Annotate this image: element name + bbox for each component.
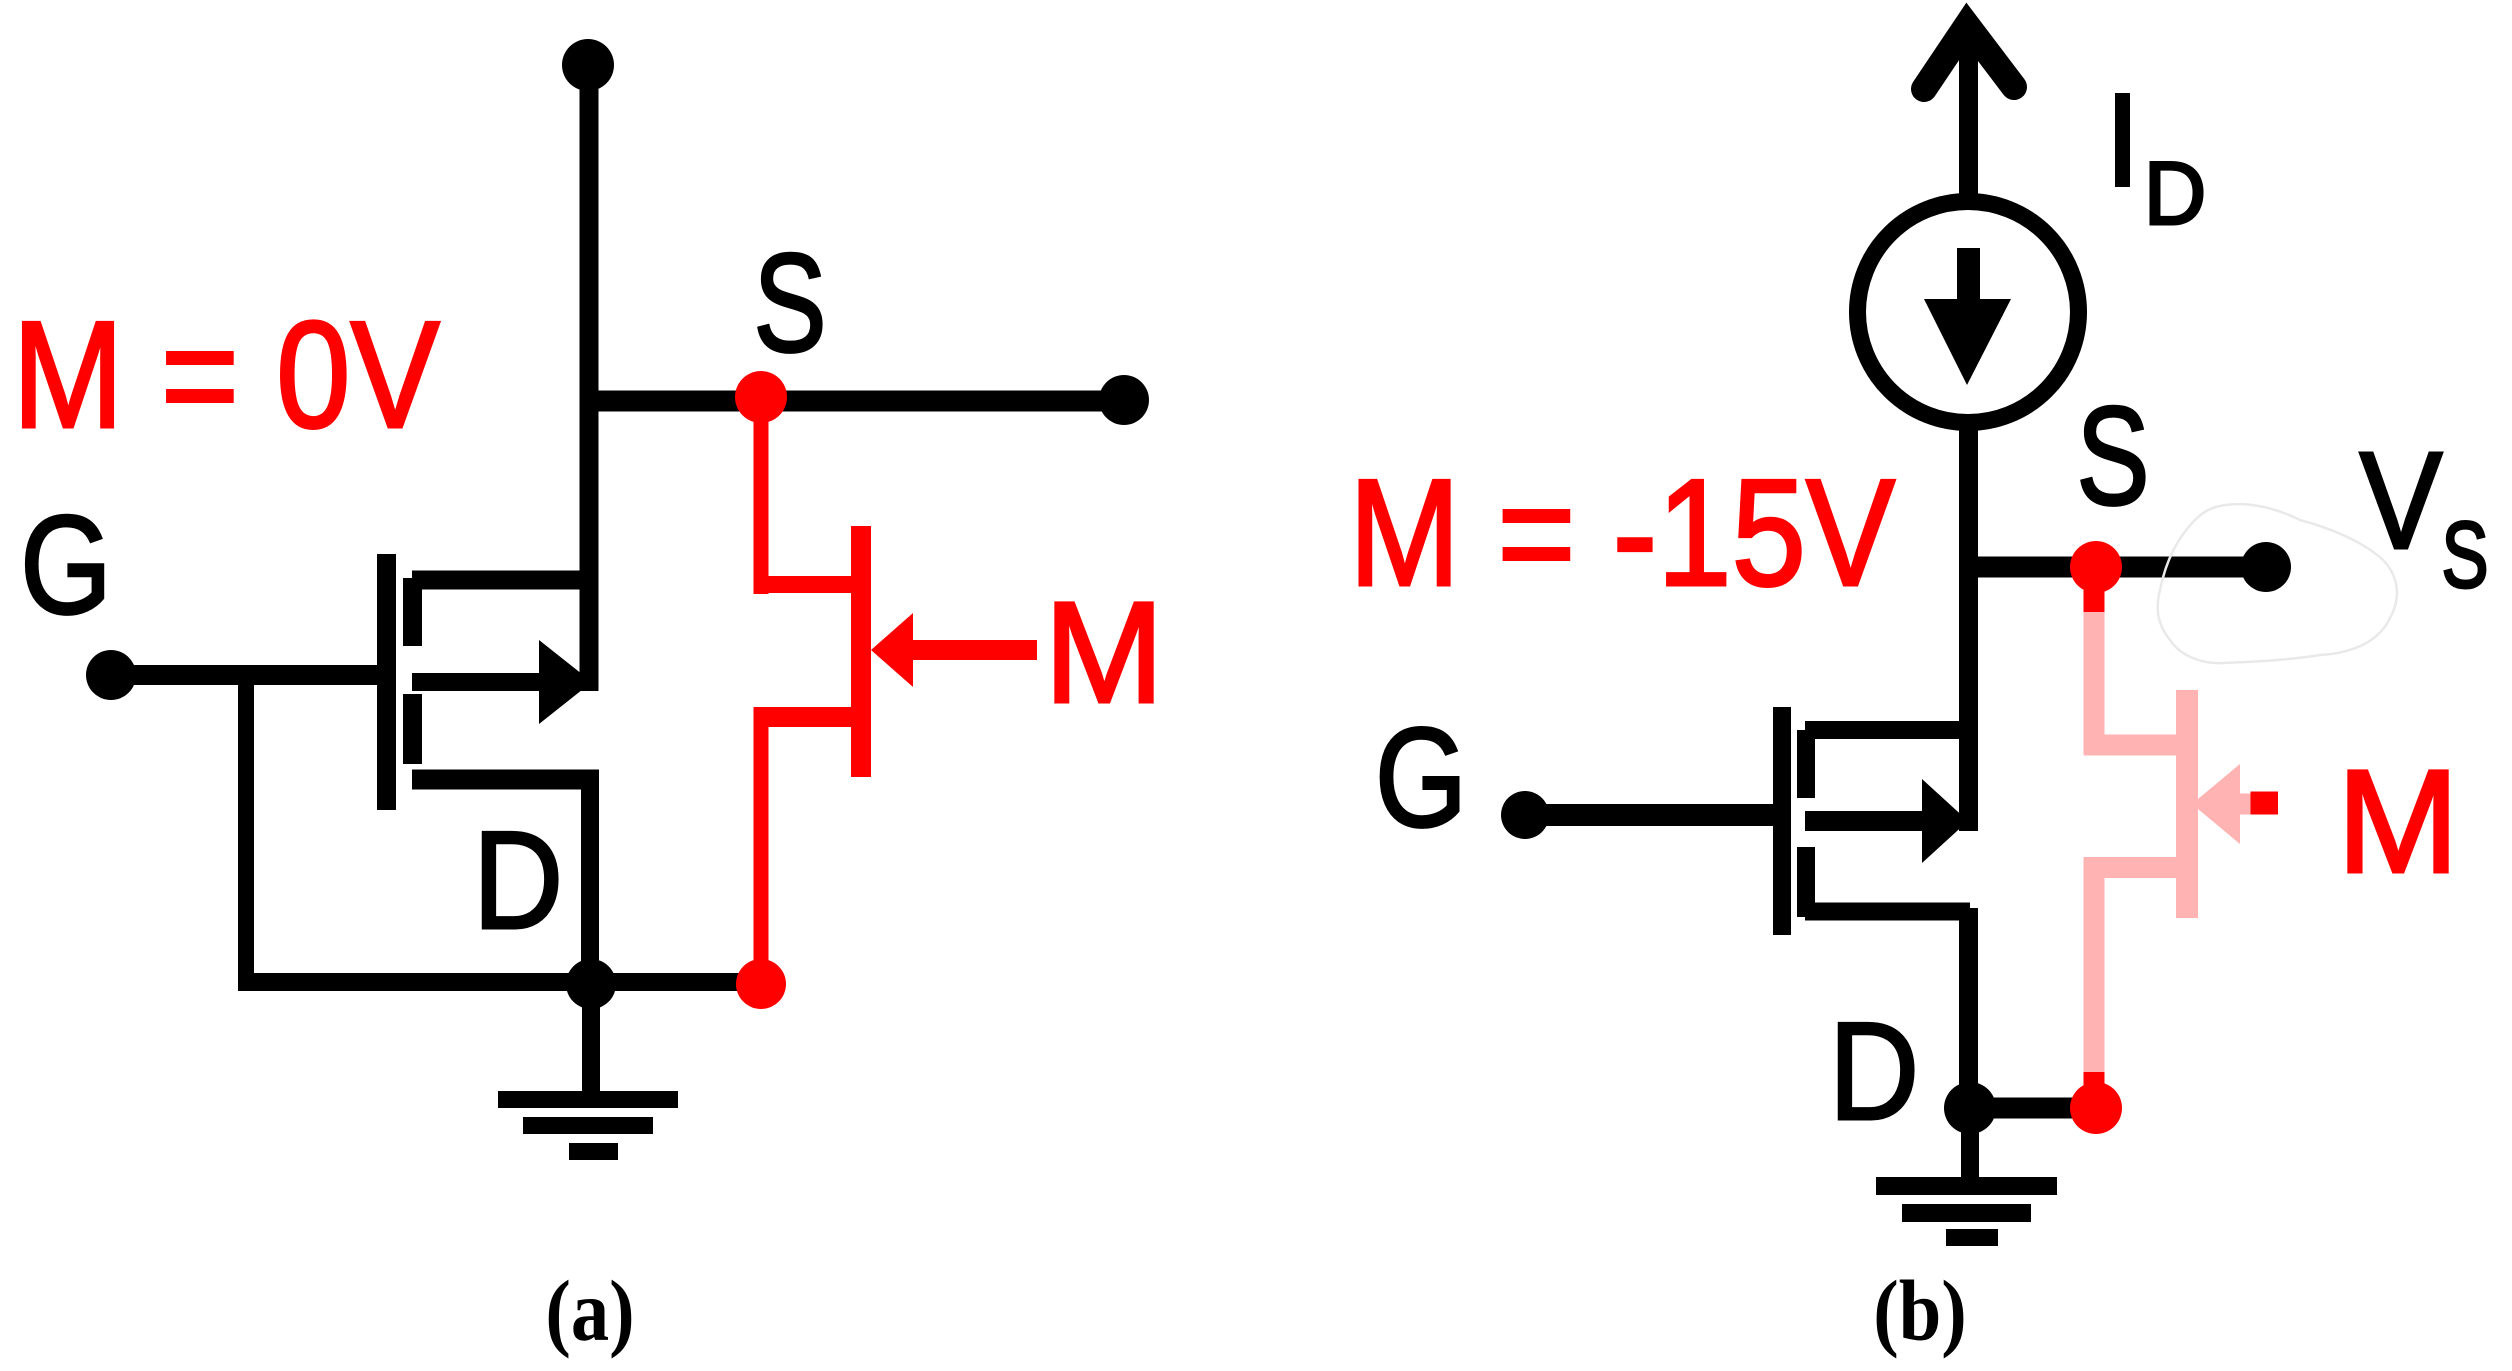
- transistor M2 source lead (b): [1805, 721, 1967, 739]
- wire gate-to-drain drop vertical (a): [238, 665, 254, 990]
- wire gate lead (a): [111, 665, 386, 685]
- node S right terminal dot (a): [1099, 375, 1149, 425]
- wire vertical source line (b): [1959, 420, 1978, 831]
- label S (a): [754, 224, 827, 381]
- wire pink vertical lower (b): [2084, 857, 2105, 1072]
- wire red stub below S dot (b): [2084, 585, 2105, 612]
- label M (red, b): [2337, 740, 2459, 904]
- label G (b): [1375, 698, 1467, 856]
- node red dot bottom (b): [2070, 1082, 2122, 1134]
- node top terminal dot (a): [562, 39, 614, 91]
- transistor M2 channel middle segment (b): [1797, 847, 1815, 917]
- transistor M2 bulk arrow shaft (b): [1805, 811, 1925, 831]
- svg-text:D: D: [1829, 994, 1919, 1150]
- wire bottom horizontal to D (a): [238, 973, 761, 991]
- faint sketch blob near VS (b): [2158, 504, 2397, 663]
- transistor M1 source lead (a): [412, 571, 589, 590]
- current source ID inner arrow head (b): [1924, 299, 2011, 385]
- transistor M1 gate bar (a): [377, 554, 396, 810]
- wire red vertical lower (a): [754, 707, 769, 984]
- svg-text:D: D: [473, 803, 563, 959]
- label (b): [1873, 1262, 1967, 1359]
- transistor M2 bulk arrow head (b): [1922, 779, 1968, 863]
- svg-text:S: S: [2077, 377, 2150, 534]
- wire drain vertical (a): [581, 770, 599, 985]
- transistor M2 drain lead (b): [1805, 903, 1970, 921]
- svg-text:V: V: [2360, 423, 2443, 578]
- pink bulk arrow head (b): [2192, 764, 2240, 844]
- red bulk arrow shaft M (a): [913, 640, 1037, 660]
- wire pink lower lead (b): [2084, 857, 2177, 878]
- label S subscript of VS (b): [2441, 502, 2488, 607]
- node D junction dot (b): [1944, 1082, 1996, 1134]
- svg-text:S: S: [2441, 502, 2488, 607]
- wire pink upper lead (b): [2084, 735, 2177, 756]
- wire ground stub (b): [1961, 1108, 1979, 1178]
- svg-text:(b): (b): [1873, 1262, 1967, 1359]
- ground bar 3 (a): [569, 1143, 618, 1160]
- svg-text:M: M: [2337, 740, 2459, 904]
- pink bulk bar (b): [2176, 690, 2198, 918]
- wire vertical source line (a): [580, 65, 599, 691]
- svg-text:S: S: [754, 224, 827, 381]
- red bulk arrow head (a): [871, 613, 913, 687]
- wire S horizontal (b): [1967, 557, 2266, 578]
- current source ID inner arrow shaft (b): [1957, 248, 1980, 312]
- wire S horizontal (a): [589, 391, 1124, 412]
- transistor M1 channel top segment (a): [403, 578, 422, 646]
- wire pink vertical upper (b): [2084, 612, 2105, 756]
- svg-text:M: M: [1044, 572, 1164, 733]
- node S right terminal dot (b): [2241, 542, 2291, 592]
- ground bar 2 (a): [523, 1117, 653, 1134]
- wire red stub above bottom dot (b): [2084, 1072, 2105, 1090]
- current source ID top arrow head (b): [1924, 25, 2014, 89]
- label I (b): [2115, 93, 2130, 187]
- label D subscript of ID (b): [2144, 144, 2206, 243]
- ground bar 2 (b): [1902, 1204, 2031, 1222]
- node D junction dot (a): [566, 959, 616, 1009]
- wire ground stub (a): [582, 984, 600, 1092]
- node G terminal dot (a): [86, 650, 136, 700]
- ground bar 1 (b): [1876, 1177, 2057, 1195]
- wire red vertical upper (a): [754, 397, 769, 594]
- label S (b): [2077, 377, 2150, 534]
- ground bar 3 (b): [1946, 1229, 1998, 1246]
- transistor M2 gate bar (b): [1773, 707, 1791, 935]
- svg-text:G: G: [1375, 698, 1467, 856]
- wire red upper lead (a): [754, 576, 852, 593]
- node red dot bottom (a): [736, 959, 786, 1009]
- transistor M2 channel top segment (b): [1797, 730, 1815, 798]
- svg-text:M = -15V: M = -15V: [1349, 448, 1895, 618]
- node G terminal dot (b): [1501, 791, 1549, 839]
- label M (red, a): [1044, 572, 1164, 733]
- label G (a): [20, 487, 111, 643]
- transistor M1 bulk arrow shaft (a): [412, 673, 548, 691]
- wire drain vertical (b): [1959, 908, 1978, 1108]
- transistor M1 bulk arrow head (a): [539, 640, 592, 724]
- node red dot S (a): [735, 371, 787, 423]
- transistor M1 drain lead (a): [412, 770, 589, 790]
- pink bulk arrow shaft stub (b): [2240, 794, 2251, 815]
- svg-text:G: G: [20, 487, 111, 643]
- current source ID top arrow shaft (b): [1959, 25, 1978, 196]
- wire red lower lead (a): [754, 707, 852, 727]
- transistor M1 channel middle segment (a): [403, 694, 422, 764]
- svg-text:(a): (a): [545, 1262, 634, 1359]
- node red dot S (b): [2070, 541, 2122, 593]
- wire D to red dot (b): [1970, 1098, 2096, 1119]
- red dash on bulk arrow (b): [2251, 792, 2279, 815]
- red bulk bar (a): [851, 526, 871, 777]
- label (a): [545, 1262, 634, 1359]
- current source ID circle (b): [1858, 202, 2079, 423]
- ground bar 1 (a): [498, 1091, 678, 1108]
- label M = 0V (red, a): [12, 290, 439, 460]
- label D (b): [1829, 994, 1919, 1150]
- svg-text:M = 0V: M = 0V: [12, 290, 439, 460]
- label M = -15V (red, b): [1349, 448, 1895, 618]
- svg-text:D: D: [2144, 144, 2206, 243]
- label D (a): [473, 803, 563, 959]
- label V of VS (b): [2360, 423, 2443, 578]
- wire gate lead (b): [1525, 804, 1778, 826]
